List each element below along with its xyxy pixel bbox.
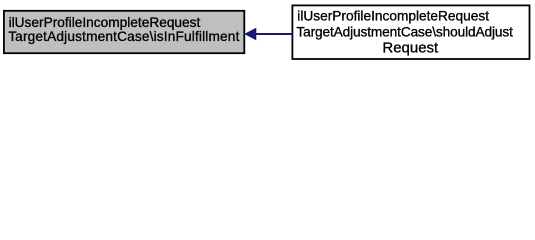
svg-text:TargetAdjustmentCase\isInFulfi: TargetAdjustmentCase\isInFulfillment (8, 29, 239, 44)
svg-text:ilUserProfileIncompleteRequest: ilUserProfileIncompleteRequest (297, 9, 489, 24)
svg-text:ilUserProfileIncompleteRequest: ilUserProfileIncompleteRequest (9, 15, 201, 30)
node box ilUserProfileIncompleteRequestTargetAdjustmentCase::shouldAdjustRequest (caller node, white) (292, 5, 529, 59)
call edge shaft (shouldAdjustRequest to isInFulfillment) (255, 33, 293, 35)
svg-text:Request: Request (382, 39, 439, 56)
svg-text:TargetAdjustmentCase\shouldAdj: TargetAdjustmentCase\shouldAdjust (296, 25, 513, 40)
call edge arrowhead (245, 29, 256, 40)
node box ilUserProfileIncompleteRequestTargetAdjustmentCase::isInFulfillment (current node, grey) (4, 11, 244, 53)
